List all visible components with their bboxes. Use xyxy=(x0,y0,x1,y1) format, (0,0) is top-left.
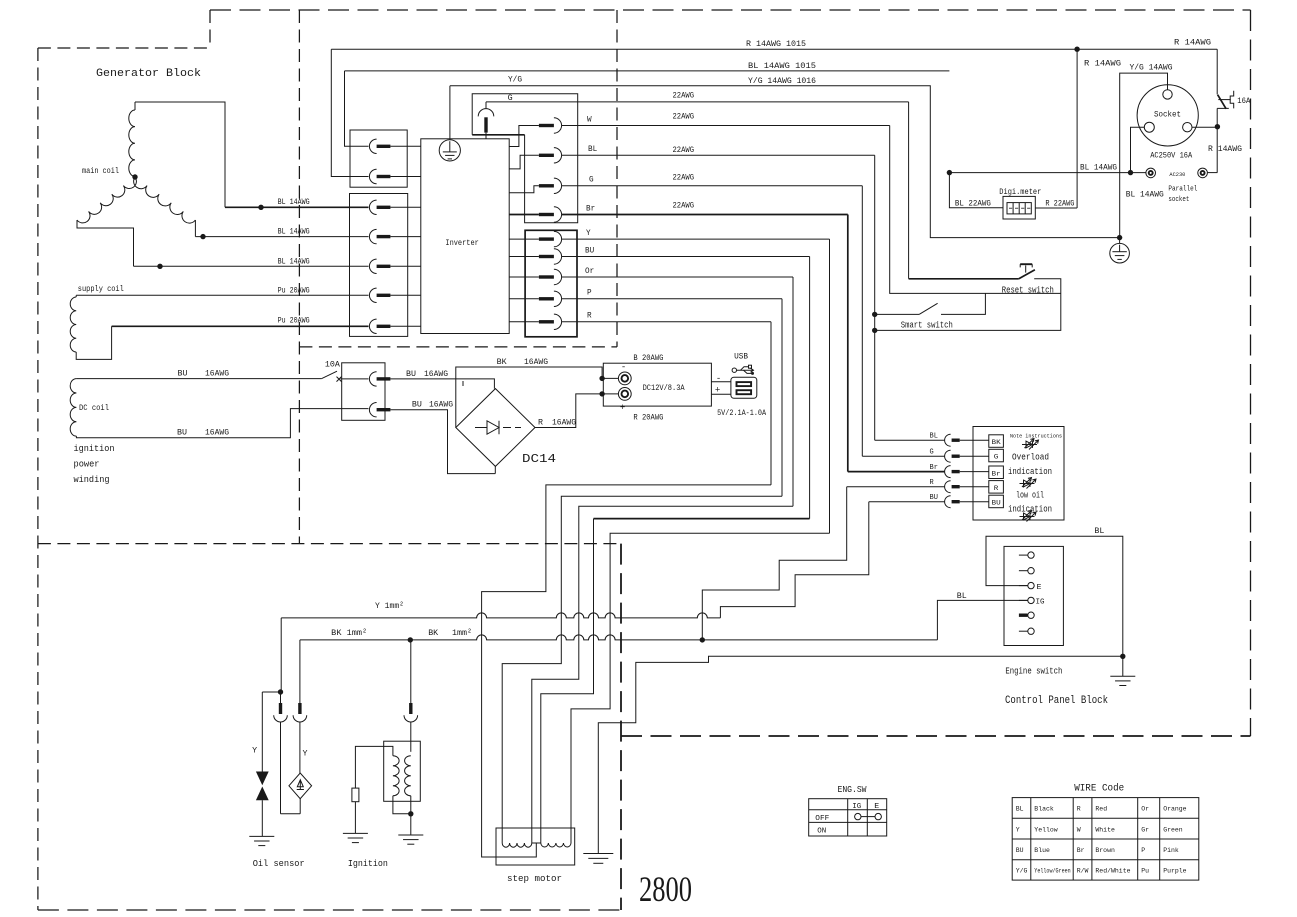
wire DC pin1 to bridge xyxy=(390,379,494,389)
svg-text:AC250V 16A: AC250V 16A xyxy=(1150,151,1193,161)
terminal plus ring xyxy=(618,388,631,401)
connector B pin4 xyxy=(369,288,376,302)
connector B pin5 xyxy=(369,319,376,333)
node BL row2 junction xyxy=(200,234,205,239)
svg-text:16AWG: 16AWG xyxy=(424,370,448,379)
wire Br vertical thick to overload xyxy=(847,215,849,472)
svg-text:OFF: OFF xyxy=(815,815,829,823)
socket left pin xyxy=(1144,122,1154,132)
svg-text:R 14AWG: R 14AWG xyxy=(1208,145,1242,154)
frame dashed step x=210 xyxy=(209,10,211,48)
svg-text:22AWG: 22AWG xyxy=(673,146,695,155)
svg-text:Pu: Pu xyxy=(1141,868,1149,875)
svg-text:P: P xyxy=(1141,847,1145,854)
step motor coil 2 xyxy=(541,843,571,847)
frame outer dashed right xyxy=(1250,10,1252,736)
wire main coil left branch xyxy=(77,220,134,266)
wire main coil right branch xyxy=(194,220,196,237)
engine switch pin 2 xyxy=(1019,570,1028,572)
main coil right winding xyxy=(134,177,196,223)
connector B pin3 xyxy=(369,259,376,273)
wire main coil top feeder xyxy=(135,102,225,207)
svg-text:R: R xyxy=(538,418,543,427)
connector pin Y xyxy=(539,237,554,240)
wire BL into overload xyxy=(875,439,945,441)
svg-text:R: R xyxy=(587,312,592,321)
svg-text:Gr: Gr xyxy=(1141,826,1149,833)
svg-text:BL 22AWG: BL 22AWG xyxy=(955,200,991,209)
wire Or vertical to bundle xyxy=(792,277,794,506)
breaker trip bracket xyxy=(1230,91,1234,109)
svg-text:22AWG: 22AWG xyxy=(673,201,695,210)
wire DC pin2 to bridge xyxy=(390,410,495,474)
wire R 16AWG bridge out xyxy=(535,394,602,428)
wire inverter feed R xyxy=(509,321,539,323)
smart switch wire in xyxy=(875,313,919,315)
node R wire junction top xyxy=(1074,47,1079,52)
svg-text:USB: USB xyxy=(734,353,748,362)
svg-text:E: E xyxy=(1037,584,1043,592)
svg-text:BU: BU xyxy=(412,401,422,410)
wires box B pins out xyxy=(390,206,420,208)
node reset return tap xyxy=(872,328,877,333)
oil sensor diode pair branch xyxy=(262,691,280,693)
wire breaker to right terminal xyxy=(1208,172,1218,174)
svg-text:10A: 10A xyxy=(325,361,340,370)
connector overload R xyxy=(945,481,951,493)
svg-text:Y 1mm²: Y 1mm² xyxy=(375,601,404,611)
svg-text:BU: BU xyxy=(585,246,594,255)
resistor ignition xyxy=(352,788,359,802)
wire inverter feed G xyxy=(509,186,539,193)
bridge diode symbol xyxy=(475,427,487,429)
svg-text:Black: Black xyxy=(1034,806,1054,813)
svg-text:Blue: Blue xyxy=(1034,847,1050,854)
wire G 22AWG xyxy=(486,101,909,103)
wire fuse to connector xyxy=(341,378,369,380)
svg-text:ON: ON xyxy=(817,828,826,836)
svg-text:16AWG: 16AWG xyxy=(205,369,229,378)
svg-text:R 14AWG: R 14AWG xyxy=(1174,39,1211,48)
socket right pin xyxy=(1183,123,1192,132)
smart switch wire out xyxy=(941,293,985,314)
node BK bus R link tap xyxy=(700,637,705,642)
engine switch pin 1 xyxy=(1019,554,1028,556)
svg-text:DC14: DC14 xyxy=(522,452,556,466)
socket circle xyxy=(1137,85,1198,146)
main coil left winding xyxy=(77,177,136,223)
svg-text:IG: IG xyxy=(1036,599,1045,607)
svg-text:Or: Or xyxy=(1141,806,1149,813)
wire ignition right to ground xyxy=(410,796,412,835)
wire BU 16AWG bottom xyxy=(76,409,368,438)
engine switch box xyxy=(1004,546,1063,645)
ENG.SW OFF contact symbol xyxy=(855,813,861,819)
wire common ground run xyxy=(598,656,1123,853)
svg-text:BL: BL xyxy=(1094,527,1104,536)
connector pin Or xyxy=(539,275,554,278)
wire G 22AWG vertical to reset switch xyxy=(908,102,910,279)
wire inverter feed W xyxy=(509,126,539,147)
svg-text:16AWG: 16AWG xyxy=(552,418,576,427)
node left pin junction xyxy=(1128,170,1133,175)
wire BL 14AWG row1 xyxy=(225,206,369,208)
connector pin BU xyxy=(539,255,554,258)
svg-text:Note instructions: Note instructions xyxy=(1010,433,1062,440)
svg-text:Br: Br xyxy=(1077,847,1085,854)
connector DC pin1 xyxy=(369,372,376,386)
wire W vertical to smart switch line xyxy=(890,126,1061,294)
connector box C top (W BL G Br) with G stub xyxy=(472,94,578,223)
svg-text:Inverter: Inverter xyxy=(445,238,478,248)
wire Or 22AWG row xyxy=(562,276,793,278)
svg-text:WIRE Code: WIRE Code xyxy=(1074,782,1124,794)
svg-text:BL 14AWG 1015: BL 14AWG 1015 xyxy=(748,62,816,71)
connector A pin1 xyxy=(369,139,376,153)
wire Br 22AWG row xyxy=(562,214,848,216)
connector overload BU xyxy=(945,496,951,508)
svg-text:BU: BU xyxy=(992,500,1001,507)
ignition coil box xyxy=(384,741,421,801)
svg-text:Yellow/Green: Yellow/Green xyxy=(1034,868,1070,875)
wire W 22AWG row xyxy=(562,125,890,127)
wire box C thick bottom stub xyxy=(472,134,524,136)
svg-text:main coil: main coil xyxy=(82,167,119,176)
svg-text:Y/G 14AWG: Y/G 14AWG xyxy=(1130,63,1173,72)
svg-text:Br: Br xyxy=(992,470,1001,477)
frame left dashed xyxy=(37,48,39,910)
svg-text:DC12V/8.3A: DC12V/8.3A xyxy=(643,384,685,393)
wire bundle BU (w4) thick horizontal xyxy=(594,518,810,520)
svg-text:Br: Br xyxy=(586,204,595,213)
socket top pin xyxy=(1163,90,1172,99)
svg-text:indication: indication xyxy=(1008,504,1052,514)
node BL row1 junction xyxy=(258,205,263,210)
step motor coil 1 xyxy=(502,843,532,847)
svg-text:Control Panel Block: Control Panel Block xyxy=(1005,695,1108,707)
connector pin R xyxy=(539,320,554,323)
node DC block plus xyxy=(599,391,604,396)
svg-text:Y: Y xyxy=(252,746,257,755)
earth ground oil sensor xyxy=(249,835,274,837)
wire BL 14AWG row3 xyxy=(134,265,369,267)
wire R down to digi meter xyxy=(1076,49,1078,208)
earth ground circle on inverter xyxy=(439,140,460,161)
wire R into overload from below xyxy=(847,486,945,488)
DC coil winding xyxy=(70,379,76,437)
svg-text:Smart switch: Smart switch xyxy=(901,320,953,331)
wire BL 14AWG row2 xyxy=(195,236,368,238)
wire inverter feed Or xyxy=(509,276,539,278)
wire dot to terminal plus xyxy=(602,393,618,395)
wire supply coil bottom return xyxy=(76,326,111,359)
svg-text:IG: IG xyxy=(852,803,861,811)
svg-text:BK: BK xyxy=(497,358,507,367)
ignition coil right winding xyxy=(405,756,411,796)
parallel socket terminal right xyxy=(1198,168,1208,178)
wire DC block to USB minus xyxy=(711,381,731,383)
svg-text:22AWG: 22AWG xyxy=(673,173,695,182)
wire Y/G to earth circle xyxy=(449,86,451,140)
frame inner dashed vertical x=617 xyxy=(616,10,618,347)
engine switch pin 4 xyxy=(1019,599,1028,601)
svg-text:BK: BK xyxy=(992,439,1001,446)
svg-text:Green: Green xyxy=(1163,826,1183,833)
earth ground ignition right xyxy=(398,834,423,836)
svg-text:16AWG: 16AWG xyxy=(429,401,453,410)
connector inline oil-right xyxy=(298,703,301,714)
connector overload Br xyxy=(945,466,951,478)
svg-text:BL 14AWG: BL 14AWG xyxy=(278,257,310,266)
svg-text:G: G xyxy=(589,176,594,185)
svg-text:supply coil: supply coil xyxy=(78,285,124,294)
wire BK 16AWG bridge AC to DC block xyxy=(456,367,602,428)
wire BL vertical to overload xyxy=(874,155,876,440)
wire BU 22AWG row xyxy=(562,256,810,258)
overload indication block box xyxy=(973,427,1064,521)
wire Pu 20AWG row2 xyxy=(112,325,369,327)
svg-text:power: power xyxy=(74,459,100,470)
svg-text:Y: Y xyxy=(1016,826,1020,833)
svg-text:Pink: Pink xyxy=(1163,847,1179,854)
svg-text:Ignition: Ignition xyxy=(348,858,388,869)
svg-text:Red: Red xyxy=(1095,806,1107,813)
bridge polarity tick xyxy=(462,381,464,386)
svg-text:R 14AWG 1015: R 14AWG 1015 xyxy=(746,40,806,49)
node engine ground junction xyxy=(1120,654,1125,659)
svg-text:Parallel: Parallel xyxy=(1168,185,1197,193)
svg-text:E: E xyxy=(874,803,880,811)
LED overload xyxy=(1022,444,1037,446)
wire oil sensor bottom U-link xyxy=(281,813,301,815)
connector pin Br xyxy=(539,213,554,216)
node BL row3 junction xyxy=(157,264,162,269)
node ground junction xyxy=(1117,235,1122,240)
overload pin cells xyxy=(989,435,1004,448)
wire BL down to digi meter xyxy=(949,173,1003,208)
wire Y bus drop to oil sensor xyxy=(280,618,282,692)
svg-text:Engine switch: Engine switch xyxy=(1005,666,1062,676)
step motor box xyxy=(496,828,575,865)
svg-text:R 14AWG: R 14AWG xyxy=(1084,59,1121,68)
node main coil star point xyxy=(132,174,137,179)
wire G vertical to overload G row xyxy=(861,186,863,456)
wire R 14AWG 1015 xyxy=(331,48,1217,50)
wire DC block to USB plus xyxy=(711,393,731,395)
bus BK 1mm2 xyxy=(300,635,938,640)
svg-text:DC coil: DC coil xyxy=(79,404,109,413)
connector A pin2 xyxy=(369,169,376,183)
svg-text:AC230: AC230 xyxy=(1169,171,1185,178)
svg-text:W: W xyxy=(1077,826,1081,833)
frame Generator Block top dashed xyxy=(38,47,210,49)
svg-text:BL 14AWG: BL 14AWG xyxy=(278,228,310,237)
wire G 22AWG row xyxy=(562,185,863,187)
wire Pu 20AWG row1 xyxy=(76,294,368,296)
svg-text:16AWG: 16AWG xyxy=(205,428,229,437)
connector overload BL xyxy=(945,434,951,446)
wire socket right pin to breaker xyxy=(1192,126,1217,128)
svg-text:BU: BU xyxy=(178,369,188,378)
connector box DC (2-pin) xyxy=(342,363,385,421)
svg-text:BL 14AWG: BL 14AWG xyxy=(278,198,310,207)
fuse switch 10A blade xyxy=(322,371,337,378)
USB trident icon xyxy=(732,368,736,372)
reset switch blade xyxy=(1019,270,1035,279)
connector box A (2-pin) xyxy=(350,130,407,187)
wire BU 16AWG top xyxy=(76,378,321,380)
earth ground circle (socket area) xyxy=(1119,238,1121,244)
smart switch blade xyxy=(919,303,938,314)
svg-text:Purple: Purple xyxy=(1163,868,1186,875)
svg-text:+: + xyxy=(620,403,625,413)
wire R vertical to bundle xyxy=(770,322,772,485)
connector overload G xyxy=(945,450,951,462)
svg-text:Pu 20AWG: Pu 20AWG xyxy=(278,317,310,326)
connector B pin2 xyxy=(369,229,376,243)
wire R right segment down to breaker xyxy=(1216,49,1218,94)
inverter U1 box xyxy=(421,139,509,334)
wire R 22AWG row xyxy=(562,321,771,323)
wire overload BU row link to Y bus xyxy=(720,502,868,618)
svg-text:W: W xyxy=(587,115,592,124)
supply coil winding xyxy=(75,295,77,297)
svg-text:winding: winding xyxy=(74,474,110,485)
svg-text:R/W: R/W xyxy=(1077,868,1089,875)
wire BU into overload from below xyxy=(869,501,945,503)
wire bundle R (w1) xyxy=(482,485,771,857)
svg-text:Y/G 14AWG 1016: Y/G 14AWG 1016 xyxy=(748,77,816,86)
digi meter box xyxy=(1003,196,1035,219)
svg-text:1mm²: 1mm² xyxy=(452,628,472,638)
wire BK bus drop to oil sensor xyxy=(299,640,301,703)
svg-text:Orange: Orange xyxy=(1163,806,1186,813)
svg-text:BK 1mm²: BK 1mm² xyxy=(331,628,367,638)
svg-text:Digi.meter: Digi.meter xyxy=(999,188,1041,197)
svg-text:BL 14AWG: BL 14AWG xyxy=(1080,164,1117,173)
DC12V block box xyxy=(603,363,711,406)
wire digi meter right xyxy=(1035,207,1077,209)
wire inverter feed P xyxy=(509,298,539,300)
breaker 16A blade xyxy=(1218,95,1227,109)
earth ground engine xyxy=(1122,656,1124,676)
wire P vertical to bundle xyxy=(781,299,783,497)
svg-text:Y/G: Y/G xyxy=(508,76,522,85)
node BK bus ignition tap xyxy=(408,637,413,642)
reset switch feed thick xyxy=(909,278,1019,280)
frame inner dashed vertical x=299.4 xyxy=(298,10,300,544)
svg-text:BU: BU xyxy=(406,370,416,379)
node BL drop junction xyxy=(947,170,952,175)
earth ground ignition left xyxy=(343,832,368,834)
wire inverter feed Br xyxy=(509,214,539,216)
wire bundle P (w2) xyxy=(502,496,782,843)
frame outer dashed top xyxy=(210,9,1251,11)
svg-text:16AWG: 16AWG xyxy=(524,358,548,367)
svg-text:Oil sensor: Oil sensor xyxy=(253,858,305,869)
connector B pin1 xyxy=(369,200,376,214)
svg-text:Y: Y xyxy=(303,749,308,758)
wire P 22AWG row xyxy=(562,298,782,300)
connector pin G xyxy=(539,184,554,187)
svg-text:-: - xyxy=(621,363,626,373)
wire overload R row link down-left to BK bus xyxy=(702,487,846,640)
connector inline oil-left xyxy=(280,692,282,703)
svg-text:Reset switch: Reset switch xyxy=(1002,284,1054,295)
svg-text:BU: BU xyxy=(177,428,187,437)
svg-text:2800: 2800 xyxy=(639,869,692,909)
svg-text:White: White xyxy=(1095,826,1115,833)
svg-text:22AWG: 22AWG xyxy=(673,112,695,121)
wire BL 14AWG 1015 xyxy=(345,70,950,72)
wire inverter feed BL xyxy=(509,155,539,169)
svg-text:+: + xyxy=(715,386,720,396)
svg-text:ignition: ignition xyxy=(74,443,115,454)
frame bottom dashed xyxy=(38,909,621,911)
node socket right pin junction xyxy=(1215,124,1220,129)
step motor coil link xyxy=(532,842,541,844)
svg-text:Socket: Socket xyxy=(1154,109,1181,119)
frame inner dashed horizontal y=346.9 xyxy=(299,346,617,348)
frame dashed vertical x=621 xyxy=(620,544,622,910)
wire BL wrap to E pin xyxy=(986,536,1123,656)
engine switch pin 3 xyxy=(1019,585,1028,587)
frame Generator Block bottom dashed xyxy=(38,543,617,545)
svg-text:B 20AWG: B 20AWG xyxy=(633,354,663,363)
bus Y 1mm2 xyxy=(281,613,720,618)
wire ignition primary left xyxy=(355,746,393,788)
svg-text:BL 14AWG: BL 14AWG xyxy=(1126,191,1164,200)
svg-text:BU: BU xyxy=(930,494,938,502)
wire inverter feed Y xyxy=(509,238,539,240)
svg-text:Red/White: Red/White xyxy=(1095,868,1130,875)
svg-text:R 20AWG: R 20AWG xyxy=(633,413,663,422)
connector box D (Y BU Or P R) thick xyxy=(525,230,577,336)
svg-text:Generator Block: Generator Block xyxy=(96,68,201,80)
wire socket left pin drop xyxy=(1131,127,1145,172)
wire dot to terminal minus xyxy=(602,377,618,379)
wire BU vertical to bundle xyxy=(809,257,811,519)
svg-text:16A: 16A xyxy=(1237,97,1250,106)
connector G inline (dome) xyxy=(485,102,487,109)
wire BK bus drop to ignition xyxy=(410,640,412,703)
terminal minus ring xyxy=(618,372,631,385)
engine switch pin 6 xyxy=(1019,630,1028,632)
ignition coil left winding xyxy=(393,756,399,796)
wire G into overload xyxy=(862,455,944,457)
wire bundle Or (w3) xyxy=(532,506,793,843)
LED low oil xyxy=(1020,516,1035,518)
bridge rectifier DC14 diamond xyxy=(456,389,535,467)
svg-text:indication: indication xyxy=(1008,467,1052,477)
reset switch plunger xyxy=(1025,265,1027,272)
node ignition bottom junction xyxy=(408,811,413,816)
svg-text:5V/2.1A-1.0A: 5V/2.1A-1.0A xyxy=(717,408,767,418)
wire Y/G 14AWG 1016 xyxy=(450,86,1120,238)
svg-text:P: P xyxy=(587,289,592,298)
wire box A pin1 out xyxy=(390,145,420,147)
connector box B (5-pin) xyxy=(350,194,408,337)
LED indication mid xyxy=(1020,483,1035,485)
svg-text:low oil: low oil xyxy=(1016,490,1044,500)
svg-text:step motor: step motor xyxy=(507,874,562,884)
svg-text:Pu 20AWG: Pu 20AWG xyxy=(278,286,310,295)
svg-text:Y/G: Y/G xyxy=(1016,868,1028,875)
wire inverter feed BU xyxy=(509,256,539,258)
wire bundle Y (w5) xyxy=(571,533,830,843)
svg-text:BK: BK xyxy=(428,628,439,638)
USB socket body xyxy=(731,377,757,398)
